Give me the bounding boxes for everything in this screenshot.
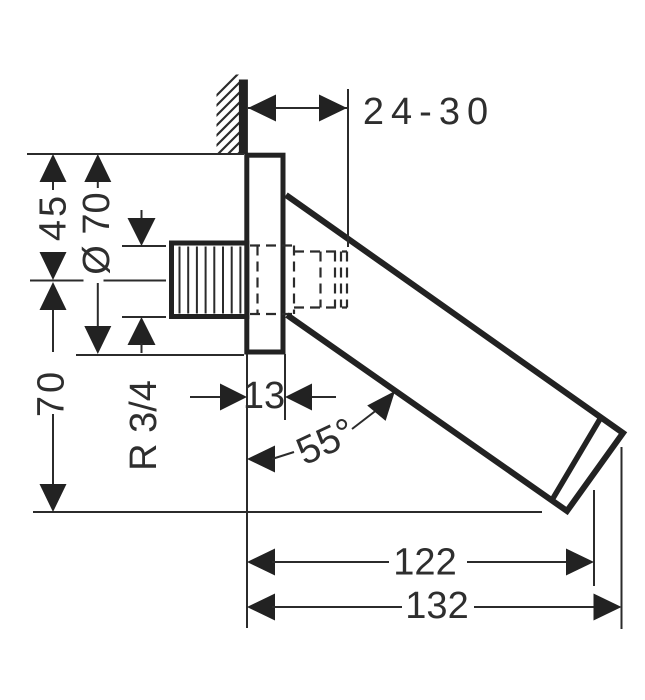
R 3/4 leader top xyxy=(141,210,143,221)
threaded pipe nipple xyxy=(172,243,247,317)
arrow down dia70 xyxy=(84,326,111,354)
wall line xyxy=(239,80,248,155)
extension line for 24-30 xyxy=(347,89,349,247)
svg-text:24-30: 24-30 xyxy=(363,91,495,133)
arrow left of 24-30 xyxy=(248,95,276,122)
pipe top extension line xyxy=(122,245,166,247)
arrow down 45 xyxy=(40,252,67,280)
left extension line x247 xyxy=(246,354,248,628)
extension line for 122 xyxy=(593,490,595,586)
dimension 13 left arrow xyxy=(190,396,220,398)
55deg left arrow xyxy=(247,446,275,473)
wall plate (escutcheon) xyxy=(247,155,283,352)
svg-text:132: 132 xyxy=(405,585,468,627)
spout end cap inner line xyxy=(552,419,600,500)
dimension 122 xyxy=(247,549,275,576)
plate bottom extension line xyxy=(76,354,244,356)
svg-text:Ø 70: Ø 70 xyxy=(76,192,118,274)
arrow right of 24-30 xyxy=(319,95,347,122)
svg-text:122: 122 xyxy=(393,542,456,584)
55deg leader to tube xyxy=(352,409,378,429)
svg-text:45: 45 xyxy=(33,193,75,241)
dimension 24-30 line xyxy=(248,107,347,109)
svg-text:13: 13 xyxy=(243,375,285,417)
arrow up R3/4 xyxy=(128,317,156,345)
dimension 132 xyxy=(247,594,275,621)
dimension 45 line xyxy=(52,181,54,190)
R 3/4 leader bottom xyxy=(141,343,143,353)
svg-text:R 3/4: R 3/4 xyxy=(123,380,165,471)
pipe bottom extension line xyxy=(122,316,166,318)
55deg arrowhead on tube xyxy=(367,391,395,421)
wall hatching xyxy=(150,62,330,162)
arrow down 70 xyxy=(40,484,67,512)
arrow up dia70 xyxy=(84,154,111,182)
arrow up 70 xyxy=(40,282,67,310)
hidden pipe end section (dashed) inside spout xyxy=(294,252,347,308)
dimension 70 line xyxy=(52,309,54,352)
spout tube outline xyxy=(286,195,623,511)
dimension 13 right arrow xyxy=(285,384,312,411)
extension line right of 13 xyxy=(284,354,286,420)
arrow up 45 xyxy=(40,154,67,182)
svg-text:70: 70 xyxy=(31,369,73,417)
pipe thread lines xyxy=(180,247,241,314)
extension line for 132 xyxy=(621,447,623,629)
hidden pipe outline (dashed) through plate xyxy=(250,246,294,315)
bottom extension line (70) xyxy=(33,511,542,513)
top extension line xyxy=(27,153,244,155)
dimension dia70 line xyxy=(97,181,99,188)
arrow down R3/4 xyxy=(128,218,156,246)
axis extension line xyxy=(30,280,84,282)
